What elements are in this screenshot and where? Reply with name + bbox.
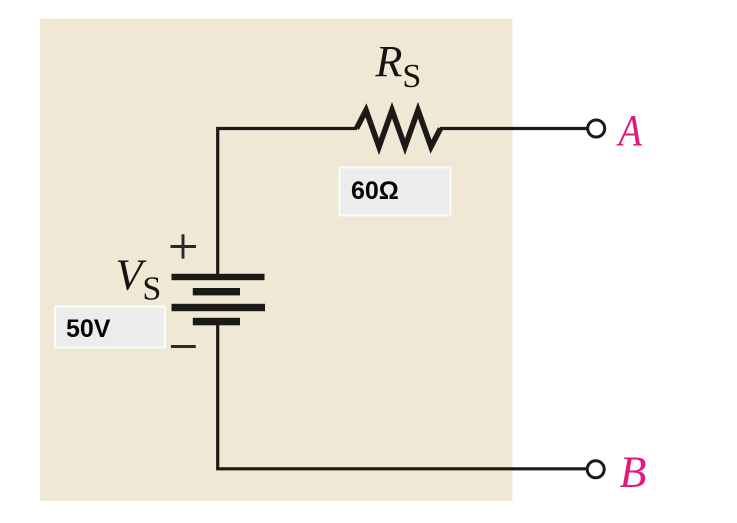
value label box 60 ohm xyxy=(340,168,451,216)
svg-text:60Ω: 60Ω xyxy=(351,177,399,205)
battery VS plate 1 (long, +) xyxy=(172,274,265,280)
svg-text:A: A xyxy=(616,106,643,155)
node B terminal circle xyxy=(587,461,604,478)
battery - polarity sign xyxy=(171,345,196,348)
battery VS plate 2 (short) xyxy=(193,288,240,295)
wire: battery + terminal up and right to resistor (node at top-left corner) xyxy=(218,129,357,275)
node A terminal circle xyxy=(588,120,605,137)
svg-text:50V: 50V xyxy=(66,315,111,343)
svg-text:B: B xyxy=(620,448,647,497)
beige circuit background panel xyxy=(40,19,513,502)
battery + polarity sign xyxy=(171,234,197,258)
value label box 50V xyxy=(55,307,165,348)
battery VS plate 3 (long) xyxy=(172,304,266,311)
battery VS plate 4 (short, -) xyxy=(193,318,240,326)
wire: resistor right to terminal A xyxy=(440,127,588,130)
resistor RS 60 ohm zigzag xyxy=(357,110,441,147)
wire: battery - terminal down and right to terminal B xyxy=(218,325,587,469)
